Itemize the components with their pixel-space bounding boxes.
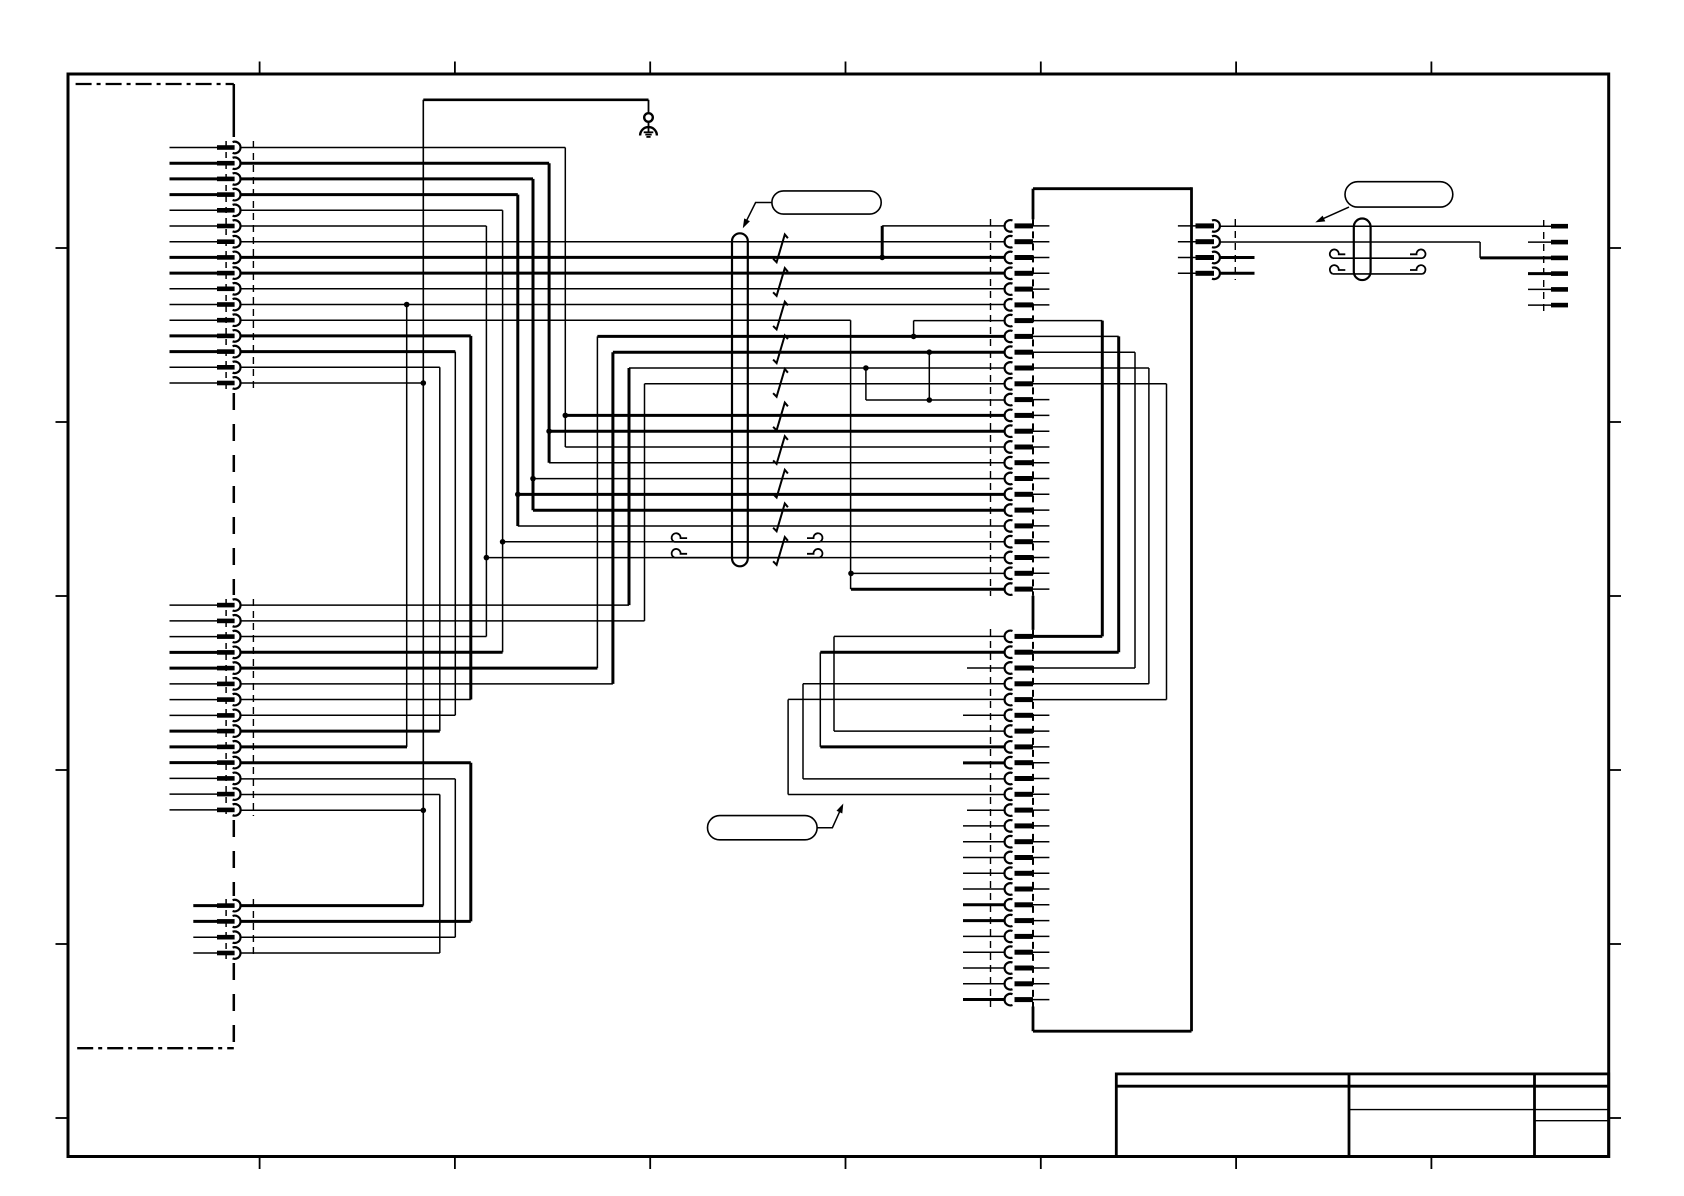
wire segment to U18	[518, 493, 1005, 496]
callout leader note 1	[744, 203, 772, 226]
junction node 10	[879, 255, 885, 261]
block P2 lower pin 2	[1005, 646, 1119, 658]
wire T12 long drop to U23-U24	[850, 320, 852, 589]
wire M5 riser to U8	[596, 336, 598, 668]
connector J1 group C pin 3	[193, 931, 240, 943]
junction node 1	[563, 413, 569, 419]
twisted pair mark 4	[773, 335, 788, 363]
block P2 upper pin 7	[1005, 315, 1103, 327]
junction node 2	[546, 428, 552, 434]
callout flag note 2	[1345, 182, 1453, 207]
wire M9 run	[240, 730, 439, 733]
shield drain wire C1 upper	[672, 533, 823, 542]
wire T11 to U6	[240, 304, 1005, 306]
wire T16 run	[240, 382, 423, 384]
title block right cell rule 2	[1535, 1120, 1609, 1122]
block P2 lower pin 14	[1005, 836, 1050, 848]
junction node 12	[848, 571, 854, 577]
wire T11 branch drop to M10	[406, 305, 408, 747]
connector J1 group A contact centre dash line	[225, 141, 227, 389]
wire U9 jog down to U12 row	[928, 352, 930, 400]
junction node 8	[500, 539, 506, 545]
wire U10 jog down to U12 row	[865, 368, 867, 400]
connector J1 body line segment between groups A and B	[233, 393, 236, 595]
connector J1 group B pin 6	[170, 678, 241, 690]
wire T13 drop to M7	[469, 336, 472, 700]
block P2 lower pin 9	[1005, 757, 1050, 769]
connector J1 group B pin 3	[170, 631, 241, 643]
wire M11 drop to B2	[469, 763, 472, 922]
ground terminal circle E1	[644, 113, 653, 122]
wire T13 run	[240, 334, 470, 337]
wire segment to U14	[549, 430, 1005, 433]
block P2 upper pin 19	[1005, 504, 1050, 516]
connector J1 group A pin 9	[170, 267, 241, 279]
wire segment to L7	[834, 730, 1005, 732]
block P2 lower pin 23	[1005, 978, 1050, 990]
wire T3 run	[240, 177, 533, 180]
frame tick bottom 3	[649, 1157, 651, 1170]
wire segment to U23	[851, 572, 1005, 574]
block P2 upper mate boundary dash line	[990, 219, 992, 596]
block P2 lower pin 21	[1005, 946, 1050, 958]
shield drain wire C2 lower	[1330, 265, 1426, 274]
wire stub L20	[963, 935, 1005, 937]
callout leader note 2	[1318, 207, 1349, 221]
connector J1 body line segment above group A	[233, 84, 236, 137]
twisted pair mark 9	[773, 504, 788, 532]
twisted pair mark 2	[773, 268, 788, 296]
junction node 5	[863, 365, 869, 371]
wire U8 jog up to U7	[913, 321, 915, 337]
wire stub L14	[963, 841, 1005, 843]
connector J1 group C mate boundary dash line	[252, 899, 254, 959]
wire stub L24	[963, 998, 1005, 1001]
wire segment to L10	[803, 778, 1005, 780]
wire stub L16	[963, 872, 1005, 874]
wire R1 to W1	[1220, 225, 1551, 227]
block P2 lower pin 6	[1005, 710, 1050, 722]
wire T7 to U2	[240, 241, 1005, 243]
block P2 lower pin 16	[1004, 867, 1049, 879]
frame tick top 1	[259, 62, 261, 75]
title block header rule	[1116, 1085, 1608, 1088]
connector J1 group A pin 7	[170, 236, 241, 248]
unit block P2 right edge	[1190, 187, 1193, 1031]
wire stub L3	[967, 667, 1005, 669]
wire segment to U16	[549, 462, 1005, 464]
unit block P2 left edge lower solid	[1032, 1007, 1035, 1032]
block P2 lower pin 1	[1005, 631, 1103, 643]
wire stub L13	[963, 825, 1005, 827]
chassis ground bar 2	[645, 134, 651, 136]
block P2 internal jumper U7-L1	[1101, 321, 1104, 637]
wire M5 run	[240, 667, 597, 670]
cable shield C2 oval	[1354, 219, 1371, 281]
wire jumper L2-L8	[819, 652, 821, 747]
wire T5 run	[240, 209, 502, 211]
wire T15 drop to M9	[439, 367, 441, 731]
wire M12 drop to B3	[454, 779, 456, 937]
wire segment to L4	[803, 683, 1005, 685]
block P2 upper pin 23	[1005, 568, 1050, 580]
wire termination W1	[1551, 224, 1568, 229]
connector J1 body line segment between groups B and C	[233, 820, 236, 896]
wire segment to U17	[533, 478, 1005, 480]
wire stub L6	[963, 714, 1005, 716]
wire ground riser T16-B1	[422, 100, 424, 906]
wire M12 run	[240, 778, 455, 780]
wire M4 run	[240, 651, 502, 654]
unit block P2 left edge dashed through upper pins	[1032, 219, 1034, 595]
wire segment to U7	[914, 320, 1005, 322]
frame tick top 5	[1040, 62, 1042, 75]
ground symbol stem	[648, 122, 650, 133]
block P2 upper pin 15	[1005, 441, 1050, 453]
twisted pair mark 8	[773, 470, 788, 498]
wire stub W5	[1528, 288, 1551, 290]
frame tick top 4	[845, 62, 847, 75]
wire R2 run	[1220, 241, 1480, 243]
wire B4 run	[240, 952, 439, 954]
block P2 upper pin 13	[1005, 410, 1050, 422]
wire segment to U20	[518, 525, 1005, 527]
wire segment to L8	[820, 745, 1005, 748]
ground feeder drop	[648, 100, 650, 114]
wire M10 run	[240, 745, 407, 748]
wire M11 run	[240, 761, 470, 764]
block P2 lower pin 12	[1005, 804, 1050, 816]
wire termination W2	[1551, 240, 1568, 245]
twisted pair mark 3	[773, 302, 788, 330]
wire M2 riser to U11	[644, 384, 646, 621]
block P2 lower pin 7	[1005, 725, 1050, 737]
connector J1 group A pin 8	[170, 252, 241, 264]
wire T4 run	[240, 193, 517, 196]
frame tick top 7	[1430, 62, 1432, 75]
title block divider 2	[1533, 1074, 1536, 1157]
wire M13 drop to B4	[439, 795, 441, 954]
block P2 lower pin 11	[1005, 789, 1050, 801]
block P2 upper pin 12	[1005, 394, 1050, 406]
block P2 right pin R4	[1178, 268, 1220, 280]
block P2 lower pin 10	[1005, 773, 1050, 785]
connector J1 group B pin 1	[170, 599, 241, 611]
connector J1 group A pin 12	[170, 314, 241, 326]
block P2 right mate boundary dash line	[1234, 219, 1236, 280]
block P2 lower pin 15	[1005, 852, 1050, 864]
callout leader note 3	[817, 808, 841, 828]
junction node 15	[421, 808, 427, 814]
connector J1 group A pin 5	[170, 205, 241, 217]
chassis ground bar 3	[646, 136, 650, 138]
connector J1 group B pin 7	[170, 694, 241, 706]
wire T14 drop to M8	[454, 352, 456, 716]
wire T5 drop	[502, 210, 504, 652]
wire T6 drop	[485, 226, 487, 637]
wire M1 riser to U10	[628, 368, 631, 605]
wire termination W5	[1551, 287, 1568, 292]
block P2 upper pin 10	[1005, 362, 1149, 374]
unit block P2 left edge upper solid	[1032, 189, 1035, 220]
block P2 lower pin 19	[1005, 915, 1050, 927]
ground feeder rail	[423, 99, 648, 102]
connector J1 group A pin 4	[170, 189, 241, 201]
wire segment to U15	[565, 446, 1005, 448]
connector J1 group C pin 4	[193, 947, 240, 959]
block P2 upper pin 3	[1005, 252, 1050, 264]
block P2 upper pin 18	[1005, 489, 1050, 501]
connector J1 group B pin 5	[170, 662, 241, 674]
wire termination W3	[1551, 256, 1568, 261]
wire stub L19	[963, 919, 1005, 922]
wire jumper L1-L7	[833, 637, 835, 732]
frame tick top 6	[1235, 62, 1237, 75]
connector J1 group B pin 13	[170, 788, 241, 800]
block P2 upper pin 14	[1005, 425, 1050, 437]
connector J1 body line segment below group C	[233, 963, 236, 1048]
title block outline	[1116, 1074, 1608, 1157]
wire M7 run	[240, 699, 470, 701]
frame tick right 3	[1609, 595, 1621, 597]
block P2 lower pin 3	[1005, 662, 1135, 674]
wire W2-W3 jog	[1479, 242, 1481, 258]
block P2 lower pin 5	[1005, 694, 1167, 706]
connector J1 group A pin 14	[170, 346, 241, 358]
connector J1 group A pin 6	[170, 220, 241, 232]
frame tick left 5	[56, 943, 69, 945]
block P2 upper pin 6	[1004, 299, 1049, 311]
title block right cell rule 1	[1535, 1109, 1609, 1111]
block P2 lower pin 22	[1005, 962, 1050, 974]
block P2 upper pin 21	[1005, 536, 1050, 548]
wire segment to U12	[866, 399, 1005, 401]
block P2 lower pin 20	[1005, 931, 1050, 943]
connector J1 group A pin 3	[170, 173, 241, 185]
wire segment to L2	[820, 651, 1005, 654]
connector J1 group A pin 16	[170, 377, 241, 389]
frame tick right 5	[1609, 943, 1621, 945]
wire M3 run	[240, 636, 486, 638]
connector J1 group A pin 1	[170, 142, 241, 154]
block P2 upper pin 16	[1004, 457, 1049, 469]
wire segment to U11	[645, 383, 1006, 385]
connector J1 group C contact centre dash line	[225, 899, 227, 959]
wire stub W4	[1528, 272, 1551, 275]
wire B1 run	[240, 904, 423, 907]
wire segment to U10	[629, 367, 1005, 369]
junction node 4	[927, 349, 933, 355]
block P2 lower mate boundary dash line	[990, 629, 992, 1007]
wire stub L9	[963, 761, 1005, 764]
block P2 internal jumper U10-L4	[1148, 368, 1150, 684]
wire M13 run	[240, 794, 439, 796]
block P2 upper pin 24	[1005, 583, 1050, 595]
wire B2 run	[240, 920, 470, 923]
unit block P2 left edge solid between pin groups	[1032, 596, 1035, 630]
wire stub R4	[1220, 272, 1255, 275]
wire stub L22	[963, 967, 1005, 969]
block P2 right pin R3	[1178, 252, 1220, 264]
wire segment to W3	[1480, 256, 1551, 259]
wire T2 run	[240, 162, 549, 165]
wire M2 run	[240, 620, 644, 622]
wire stub R3	[1220, 256, 1255, 259]
wire segment to U9	[613, 351, 1005, 354]
twisted pair mark 7	[773, 436, 788, 464]
connector J1 group A mate boundary dash line	[252, 141, 254, 389]
wire segment to U22	[486, 557, 1005, 559]
junction node 9	[484, 555, 490, 561]
unit block P2 left edge dashed through lower pins	[1032, 630, 1034, 1007]
block P2 upper pin 2	[1005, 236, 1050, 248]
connector J1 group A pin 15	[170, 362, 241, 374]
junction node 6	[530, 476, 536, 482]
frame tick right 4	[1609, 769, 1621, 771]
shield drain wire C2 upper	[1330, 249, 1426, 258]
frame tick left 2	[56, 421, 69, 423]
connector J1 group B contact centre dash line	[225, 599, 227, 816]
wire segment to U8	[597, 335, 1005, 338]
connector J1 group B pin 11	[170, 757, 241, 769]
unit block P2 bottom edge	[1033, 1030, 1192, 1033]
wire stub W6	[1528, 304, 1551, 306]
frame tick left 3	[56, 595, 69, 597]
wire T10 to U5	[240, 288, 1005, 290]
wire segment to U21	[503, 541, 1005, 543]
frame tick bottom 7	[1430, 1157, 1432, 1170]
block P2 internal jumper U8-L2	[1117, 336, 1120, 652]
twisted pair mark 1	[773, 235, 788, 263]
block P2 upper pin 8	[1005, 331, 1119, 343]
block P2 lower pin 4	[1005, 678, 1149, 690]
twisted pair mark 6	[773, 403, 788, 431]
connector J1 group B pin 4	[170, 647, 241, 659]
junction node 11	[927, 397, 933, 403]
junction node 7	[515, 492, 521, 498]
wire M6 run	[240, 683, 613, 685]
wire M6 riser to U9	[611, 352, 614, 684]
connector J1 group A pin 11	[170, 299, 241, 311]
connector J1 group A pin 2	[170, 157, 241, 169]
frame tick top 2	[454, 62, 456, 75]
wire T6 run	[240, 225, 486, 227]
callout flag note 3	[708, 816, 818, 840]
connector J1 group C pin 1	[193, 900, 240, 912]
frame tick left 4	[56, 769, 69, 771]
title block middle cell rule	[1349, 1109, 1535, 1111]
wire T8 branch riser to U1	[881, 226, 884, 258]
connector J1 group B pin 14	[170, 804, 241, 816]
frame tick right 6	[1609, 1117, 1621, 1119]
connector J1 group B pin 8	[170, 710, 241, 722]
block P2 upper pin 4	[1005, 268, 1050, 280]
wire segment to L1	[834, 635, 1005, 637]
frame tick bottom 4	[845, 1157, 847, 1170]
wire jumper L4-L10	[802, 684, 804, 779]
wire segment to U13	[565, 414, 1005, 417]
block P2 lower pin 17	[1005, 883, 1050, 895]
block P2 upper pin 20	[1005, 520, 1050, 532]
connector J1 group A pin 10	[170, 283, 241, 295]
termination boundary dash line	[1543, 220, 1545, 312]
block P2 lower pin 13	[1005, 820, 1050, 832]
wire T1 drop	[564, 148, 566, 448]
block P2 upper pin 22	[1005, 552, 1050, 564]
wire T8 to U3	[240, 256, 1005, 259]
connector J1 group C pin 2	[193, 916, 240, 928]
connector J1 group B pin 12	[170, 773, 241, 785]
connector J1 group B pin 2	[170, 615, 241, 627]
wire segment to L5	[788, 698, 1005, 700]
frame tick bottom 6	[1235, 1157, 1237, 1170]
block P2 internal jumper U11-L5	[1166, 384, 1168, 700]
wire stub L18	[963, 903, 1005, 906]
wire T15 run	[240, 366, 439, 368]
block P2 upper pin 9	[1005, 346, 1135, 358]
frame tick right 2	[1609, 421, 1621, 423]
connector J1 group B pin 10	[170, 741, 241, 753]
wire T12 run	[240, 319, 850, 321]
connector J1 group B pin 9	[170, 725, 241, 737]
twisted pair mark 5	[773, 369, 788, 397]
unit block P2 top edge	[1033, 187, 1192, 190]
wire segment to L11	[788, 794, 1005, 796]
chassis ground bar 1	[644, 131, 654, 133]
chassis ground symbol arc	[640, 127, 657, 135]
wire M8 run	[240, 714, 455, 716]
block P2 right pin R1	[1178, 220, 1220, 232]
wire T14 run	[240, 350, 455, 353]
wire T1 run	[240, 147, 565, 149]
shield drain wire C1 lower	[672, 549, 823, 558]
wire T4 drop	[516, 195, 519, 526]
wire segment to U1	[882, 225, 1005, 227]
wire stub L17	[963, 888, 1005, 890]
wire stub L15	[963, 857, 1005, 859]
title block divider 1	[1348, 1074, 1351, 1157]
wire stub L21	[963, 951, 1005, 953]
wire M14 run	[240, 809, 423, 811]
twisted pair mark 10	[773, 537, 788, 565]
frame tick bottom 2	[454, 1157, 456, 1170]
block P2 upper pin 11	[1005, 378, 1167, 390]
wire stub L23	[963, 983, 1005, 985]
callout flag note 1	[772, 191, 881, 214]
enclosure boundary top dash-dot	[76, 83, 234, 85]
block P2 upper pin 17	[1005, 473, 1050, 485]
junction node 14	[421, 380, 427, 386]
frame tick bottom 1	[259, 1157, 261, 1170]
block P2 lower pin 24	[1005, 994, 1050, 1006]
frame tick right 1	[1609, 247, 1621, 249]
block P2 right pin R2	[1178, 236, 1220, 248]
wire T3 drop	[532, 179, 535, 510]
wire segment to U24	[851, 588, 1005, 591]
frame tick top 3	[649, 62, 651, 75]
wire termination W6	[1551, 303, 1568, 308]
enclosure boundary bottom dash-dot	[77, 1047, 234, 1049]
junction node 13	[404, 302, 410, 308]
wire stub L12	[967, 809, 1005, 811]
wire jumper M7-L11	[787, 700, 789, 795]
cable shield C1 oval	[732, 233, 748, 566]
connector J1 group B mate boundary dash line	[252, 599, 254, 816]
wire T2 drop	[548, 163, 551, 463]
wire T9 to U4	[240, 272, 1005, 275]
junction node 3	[911, 334, 917, 340]
frame tick bottom 5	[1040, 1157, 1042, 1170]
